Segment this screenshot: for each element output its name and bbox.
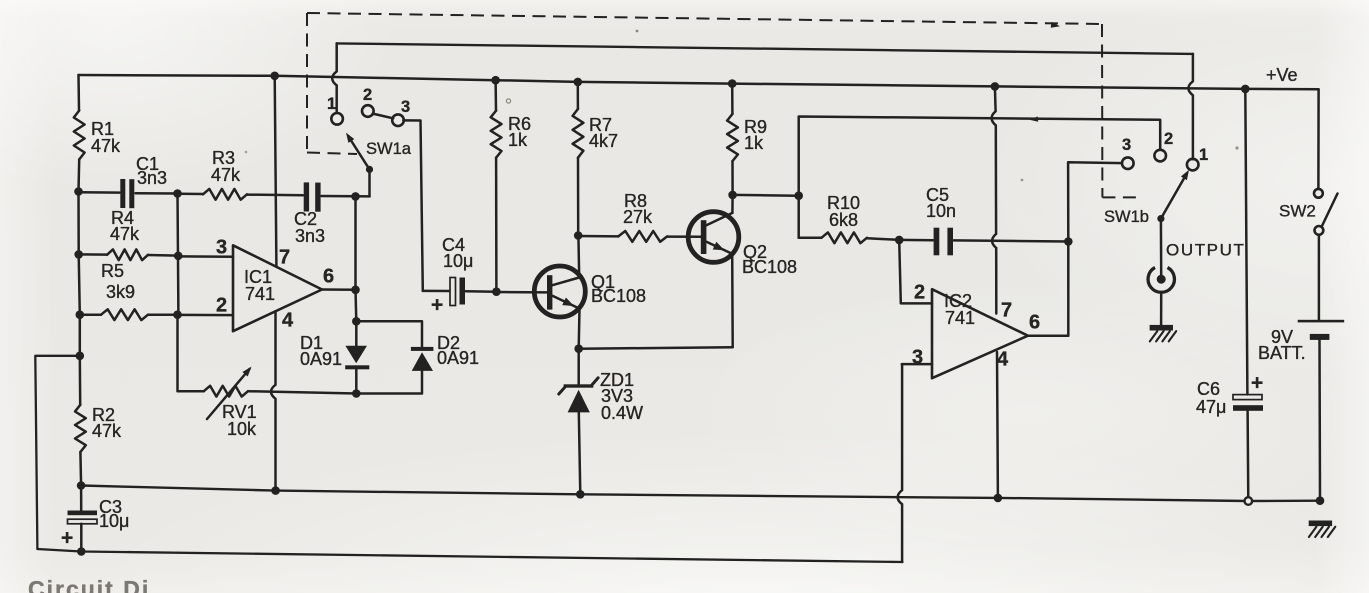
svg-text:1: 1 <box>327 95 336 113</box>
node R9 top on rail <box>728 79 737 88</box>
svg-text:3n3: 3n3 <box>137 168 167 188</box>
wire D2 top branch <box>356 321 422 347</box>
node R7/R8/Q1 collector junction <box>574 231 583 240</box>
wire IC1 pin4 column to 0V (hops over RV1 wire) <box>271 311 276 490</box>
wire IC2 pin2 to C5 left node <box>899 240 932 304</box>
svg-text:47μ: 47μ <box>1196 397 1226 417</box>
svg-text:+: + <box>431 293 443 316</box>
wire R1 bottom to node <box>77 160 80 192</box>
svg-text:3n3: 3n3 <box>295 226 325 246</box>
zener diode ZD1 3V3 <box>577 349 580 384</box>
node D1/D2 top junction <box>352 317 361 326</box>
scan speck <box>506 99 510 103</box>
svg-text:2: 2 <box>363 86 372 104</box>
dashed gang box SW1 top <box>307 13 1102 24</box>
wire C2 right lead <box>322 195 370 198</box>
svg-text:6k8: 6k8 <box>829 210 858 230</box>
diode D2 0A91 <box>411 347 434 351</box>
svg-text:741: 741 <box>245 284 275 304</box>
scan speck <box>1235 146 1238 149</box>
svg-text:7: 7 <box>279 247 290 269</box>
resistor R2 <box>75 405 86 452</box>
node pin7 column on +Ve rail <box>270 72 279 81</box>
svg-text:0.4W: 0.4W <box>601 403 643 423</box>
mark on SW1b-2 rail <box>1030 116 1038 121</box>
node R10/C5/IC2 pin2 junction <box>895 236 904 245</box>
switch SW1a contact 3 <box>392 114 404 126</box>
svg-text:10μ: 10μ <box>443 251 473 271</box>
capacitor C2 <box>304 182 309 211</box>
dashed gang box SW1 left <box>306 13 308 153</box>
diode D1 0A91 <box>355 321 358 346</box>
node D1/D2 bottom junction <box>352 389 361 398</box>
node IC2 pin4 on 0V rail <box>994 494 1003 503</box>
node C6 on 0V rail <box>1245 497 1253 505</box>
wire wiper to C2 node <box>368 169 371 196</box>
switch SW1b contact 2 <box>1154 150 1166 162</box>
svg-text:C6: C6 <box>1197 379 1220 399</box>
wire RV1 to D1 bottom (hops IC1 pin4 column) <box>248 391 356 393</box>
wire IC1 pin7 supply column <box>275 76 277 266</box>
resistor R6 1k <box>494 80 497 110</box>
capacitor C3 10u electrolytic <box>80 486 83 511</box>
dashed gang box SW1 bottom-right <box>1102 196 1141 198</box>
node ZD1 on 0V rail <box>576 490 585 499</box>
node R2/C3/0V junction <box>77 481 86 490</box>
node R7 top on rail <box>574 78 583 87</box>
svg-text:2: 2 <box>1164 130 1173 148</box>
capacitor C5 10n <box>899 239 933 242</box>
svg-text:+: + <box>61 526 73 549</box>
wire link between SW1a contacts 2 and 3 <box>373 114 394 119</box>
svg-text:7: 7 <box>1001 300 1012 322</box>
wire to IC1 pin 2 <box>178 314 234 317</box>
svg-text:SW1b: SW1b <box>1104 208 1149 226</box>
node C4/R6/Q1 base junction <box>492 287 501 296</box>
wire IC2 pin4 to 0V rail <box>996 352 999 498</box>
wire Q2 collector node to R10 branch <box>733 194 799 197</box>
wire to Q1 base <box>496 291 547 294</box>
svg-text:27k: 27k <box>623 207 653 227</box>
switch SW1b contact 3 <box>1122 157 1134 169</box>
svg-text:SW2: SW2 <box>1279 201 1316 220</box>
svg-text:47k: 47k <box>92 421 122 441</box>
wire left bypass (R2 top to lower return line) <box>35 356 80 549</box>
node C6 column on +Ve rail <box>1241 85 1250 94</box>
svg-text:+Ve: +Ve <box>1266 65 1298 85</box>
wire C1 left lead <box>79 191 120 194</box>
svg-text:47k: 47k <box>91 136 121 156</box>
switch SW2 <box>1317 89 1320 188</box>
wire to IC1 pin 3 <box>178 255 233 258</box>
node C5 right / SW1b-3 / IC2 pin6 junction <box>1064 237 1073 246</box>
svg-text:4: 4 <box>282 310 294 332</box>
ground at battery return <box>1309 521 1332 527</box>
wire 0V bottom rail <box>81 486 1320 502</box>
node Q2 collector junction <box>728 191 737 200</box>
svg-text:6: 6 <box>1029 312 1040 334</box>
node R4 row junction <box>74 250 83 259</box>
svg-text:47k: 47k <box>211 165 241 185</box>
wire branch down to R10 <box>797 196 800 238</box>
op-amp IC1 741 <box>233 245 322 331</box>
node R5 row junction <box>76 310 85 319</box>
node R1/C1 junction <box>74 187 83 196</box>
resistor R5 <box>80 313 101 316</box>
wire jack sleeve to ground <box>1160 292 1163 325</box>
wire C1 right lead to node <box>136 192 178 195</box>
wire pin2 node down to RV1 <box>178 315 204 392</box>
svg-text:10k: 10k <box>227 419 257 439</box>
node C3 on lower return line <box>77 547 86 556</box>
wire battery to 0V rail <box>1318 339 1321 501</box>
svg-text:1k: 1k <box>508 130 528 150</box>
svg-text:1k: 1k <box>744 133 764 153</box>
svg-text:10μ: 10μ <box>99 511 129 531</box>
wire branch column C1 node down to pin2 row <box>176 194 179 315</box>
svg-text:3: 3 <box>1122 136 1131 154</box>
dashed gang box SW1 bottom-left <box>307 153 357 155</box>
wire SW1b contact 1 column (hops +Ve rail, joins top link rail) <box>1188 54 1193 159</box>
node IC1 pin6 junction <box>351 286 360 295</box>
node C2 / SW1a wiper / IC1 out branch <box>351 192 360 201</box>
scan speck <box>245 151 248 154</box>
wire IC2 pin6 output to C5 node <box>1028 242 1068 336</box>
switch SW1a contact 1 column (hops +Ve rail, joins top link rail) <box>332 43 337 113</box>
wire IC1 output pin6 <box>322 288 356 291</box>
svg-text:BATT.: BATT. <box>1258 343 1306 363</box>
svg-text:Circuit Di: Circuit Di <box>28 576 150 593</box>
svg-text:1: 1 <box>1199 146 1208 164</box>
wire Q2 emitter to Q1 emitter <box>579 347 733 348</box>
wire pin6 node down to D1 <box>354 290 357 322</box>
wire bypass node to R2 <box>79 356 82 405</box>
node R10/SW1b-2 branch junction <box>794 191 803 200</box>
node C1/R3/R4 branch <box>173 189 182 198</box>
node IC2 pin7 on +Ve rail <box>991 82 1000 91</box>
wire lower return line (R2 top / C3 bottom to IC2 pin3) <box>37 549 902 562</box>
switch SW1a contact 1 <box>331 113 343 125</box>
node R5 / IC1 pin2 junction <box>173 310 182 319</box>
scan speck <box>636 30 639 33</box>
svg-text:BC108: BC108 <box>591 286 646 306</box>
svg-text:4: 4 <box>997 349 1009 371</box>
svg-text:3k9: 3k9 <box>106 282 135 302</box>
transistor Q2 BC108 <box>688 212 739 263</box>
scan speck <box>1021 179 1024 182</box>
wire +Ve top rail <box>79 75 1319 89</box>
svg-text:3: 3 <box>216 237 227 259</box>
resistor R3 <box>178 192 204 195</box>
wire vertical node to IC1 pin6 node <box>354 196 357 289</box>
wire SW1a contact 3 to C4 <box>403 120 423 291</box>
svg-text:0A91: 0A91 <box>437 348 479 368</box>
switch SW1b contact 1 <box>1187 159 1199 171</box>
svg-text:+: + <box>1251 371 1263 394</box>
resistor R1 <box>74 111 85 160</box>
svg-text:2: 2 <box>216 295 227 317</box>
wire R2 bottom to 0V rail <box>79 452 82 486</box>
wire SW1b contact 3 to C5 node <box>1068 162 1122 241</box>
svg-text:4k7: 4k7 <box>589 131 618 151</box>
wire IC2 pin7 supply (hops SW1b-2 rail and C5 wire) <box>992 86 997 313</box>
svg-text:0A91: 0A91 <box>300 349 342 369</box>
resistor R9 1k <box>731 84 734 114</box>
wire left column top (rail to R1) <box>77 75 80 111</box>
svg-text:OUTPUT: OUTPUT <box>1166 240 1245 259</box>
mark on dashed top line <box>1051 22 1060 28</box>
transistor Q1 BC108 <box>534 266 585 317</box>
svg-text:SW1a: SW1a <box>366 140 412 158</box>
svg-text:47k: 47k <box>110 224 140 244</box>
svg-text:3: 3 <box>401 98 410 116</box>
wire R3 to C2 (crosses IC1 pin7 line) <box>247 193 303 196</box>
resistor R7 4k7 <box>577 82 580 109</box>
wire C6 column <box>1245 89 1247 395</box>
node R4 / IC1 pin3 junction <box>174 252 183 261</box>
wire left column C1 node to R4 node <box>77 192 80 255</box>
svg-text:6: 6 <box>323 266 334 288</box>
wire top link rail (SW1a-1 to SW1b-1) <box>337 43 1193 54</box>
node Q1 emitter / Q2 emitter / ZD1 junction <box>574 344 583 353</box>
node battery on 0V rail <box>1316 496 1325 505</box>
wire left column R5 node to bypass node <box>79 315 82 356</box>
potentiometer RV1 10k <box>204 386 248 397</box>
wire branch up to SW1b contact 2 rail <box>799 117 1160 196</box>
capacitor C6 47u electrolytic <box>1233 395 1262 400</box>
output jack socket <box>1148 268 1174 293</box>
svg-text:R5: R5 <box>101 261 124 281</box>
wire IC2 pin3 to lower return line (hops 0V rail) <box>902 363 932 366</box>
op-amp IC2 741 <box>932 289 1028 378</box>
battery 9V <box>1298 320 1345 323</box>
switch SW1a contact 2 <box>362 105 374 117</box>
resistor R4 <box>79 253 107 256</box>
ground below output jack <box>1150 325 1173 331</box>
node bypass junction <box>76 352 85 361</box>
svg-text:BC108: BC108 <box>742 257 797 277</box>
resistor R10 6k8 <box>799 236 822 239</box>
node IC1 pin4 on 0V rail <box>271 486 280 495</box>
resistor R8 27k <box>578 235 618 238</box>
capacitor C1 <box>120 179 125 208</box>
wire D2 bottom branch <box>356 371 422 394</box>
wire SW2 to battery <box>1318 235 1321 320</box>
switch SW1a wiper arm <box>349 137 370 170</box>
wire R4 right lead <box>148 254 178 257</box>
svg-text:741: 741 <box>945 308 975 328</box>
wire R5 right lead <box>148 313 178 316</box>
svg-text:2: 2 <box>914 282 925 304</box>
dashed gang box SW1 right <box>1101 24 1103 197</box>
switch SW1b wiper arm <box>1161 174 1187 219</box>
capacitor C4 10u <box>423 290 450 293</box>
wire SW1b wiper to output jack <box>1160 219 1163 275</box>
wire left column R4 node to R5 node <box>79 254 80 314</box>
svg-text:10n: 10n <box>926 201 956 221</box>
node R6 top on rail <box>491 76 500 85</box>
